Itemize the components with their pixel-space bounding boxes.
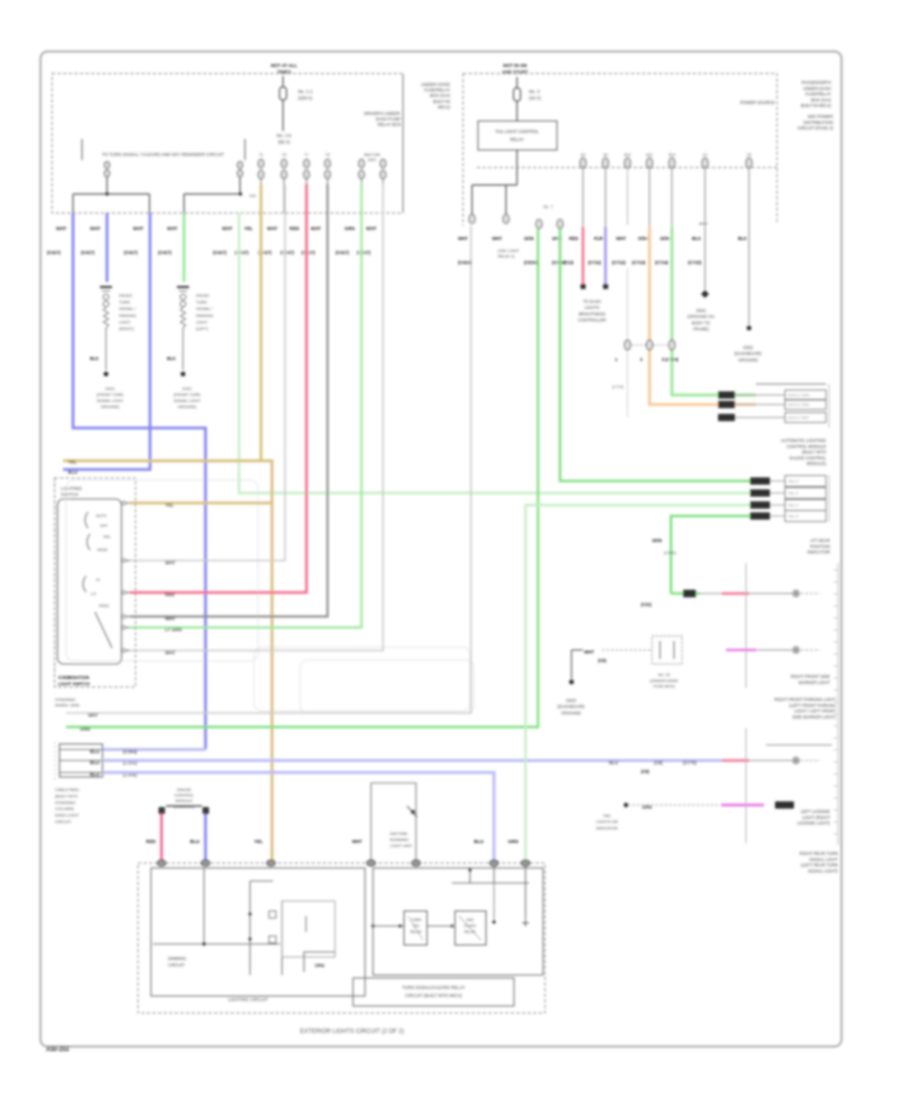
svg-text:TO DASH: TO DASH [583, 299, 601, 304]
svg-text:BLU: BLU [190, 839, 200, 844]
svg-text:TURN: TURN [119, 300, 130, 305]
connector relay pin B [503, 214, 509, 223]
power label HOT AT ALL TIMES [271, 63, 298, 75]
wire label relay B [492, 204, 553, 259]
svg-text:WHT: WHT [167, 226, 178, 231]
svg-text:SIGNAL /: SIGNAL / [196, 306, 213, 311]
svg-text:RED: RED [146, 839, 156, 844]
connector boundary line upper [745, 563, 747, 688]
svg-text:(C9): (C9) [641, 769, 650, 774]
svg-text:AUTO LT GRN: AUTO LT GRN [788, 393, 810, 397]
svg-text:RELAY BOX: RELAY BOX [378, 122, 402, 127]
right fuse box terminal row [580, 153, 752, 168]
wire label WHT relay A [458, 236, 472, 265]
svg-text:RELAY 2): RELAY 2) [498, 255, 515, 259]
taillight connector array [750, 476, 826, 522]
wire label row2 BLU [90, 760, 138, 765]
svg-text:GRN: GRN [660, 236, 670, 241]
wire GRN taillight row3 return [526, 505, 751, 861]
connector DRL into MICU [367, 860, 375, 866]
svg-text:GAUGE: GAUGE [177, 787, 192, 792]
fuse box caption TO TURN SIGNAL/HAZARD CIRCUIT [82, 139, 245, 160]
wire WHT switch row2 [130, 184, 285, 561]
svg-text:MICU): MICU) [438, 104, 451, 109]
wire BLU illumination bus row3 [103, 773, 495, 862]
svg-text:ORN: ORN [638, 236, 648, 241]
connector GRN pin B [557, 219, 563, 228]
wire WHT relay output long run [66, 226, 471, 713]
relay feed node [452, 866, 529, 927]
tail light relay [478, 121, 557, 185]
svg-text:RIGHT FRONT PARKING LIGHT: RIGHT FRONT PARKING LIGHT [774, 697, 836, 702]
svg-text:RED: RED [290, 226, 300, 231]
svg-text:AUTO: AUTO [96, 514, 107, 518]
driver's under-dash fuse box outline [463, 74, 777, 227]
tail indicator row [596, 801, 794, 830]
svg-text:TAIL: TAIL [103, 535, 111, 539]
svg-text:BRIGHTNESS: BRIGHTNESS [579, 311, 606, 316]
svg-text:(C714): (C714) [655, 260, 669, 265]
license light caption [797, 809, 830, 826]
svg-text:UNIT: UNIT [368, 158, 378, 162]
wire GRN small light feed long run [239, 213, 750, 493]
svg-text:LT GRN: LT GRN [165, 627, 182, 632]
svg-text:(C304): (C304) [123, 749, 138, 754]
svg-text:WHT: WHT [311, 226, 322, 231]
svg-text:(BUILT INTO: (BUILT INTO [802, 450, 827, 455]
svg-text:(100 A): (100 A) [298, 96, 313, 101]
svg-text:WHT: WHT [458, 236, 468, 241]
svg-text:(C710): (C710) [560, 260, 574, 265]
svg-text:LIGHT: LIGHT [196, 319, 208, 324]
front turn signal bulb LEFT [167, 287, 213, 370]
wire color labels row 1 [56, 226, 377, 231]
svg-text:COLUMN): COLUMN) [55, 806, 74, 811]
svg-text:G201: G201 [182, 386, 192, 391]
svg-text:AND START: AND START [502, 70, 528, 75]
svg-text:HI: HI [96, 578, 100, 582]
svg-text:LIGHT (RIGHT: LIGHT (RIGHT [802, 815, 830, 820]
svg-text:LICENSE LIGHT): LICENSE LIGHT) [797, 821, 830, 826]
svg-text:FLASH: FLASH [464, 924, 476, 928]
wire WHT switch row4 [130, 184, 328, 617]
node bus right headlight fuse [184, 192, 256, 213]
svg-text:WHT: WHT [165, 650, 176, 655]
svg-text:YEL: YEL [254, 839, 263, 844]
svg-text:(C770): (C770) [683, 760, 697, 765]
svg-text:INDICATOR: INDICATOR [596, 825, 618, 830]
svg-text:(GROUND VIA: (GROUND VIA [687, 314, 715, 319]
connector DRL b into MICU [412, 860, 420, 866]
svg-text:LIGHTS ON: LIGHTS ON [596, 819, 618, 824]
svg-text:(C417): (C417) [47, 250, 61, 255]
svg-text:LIGHT: LIGHT [119, 319, 131, 324]
module connector bracket [828, 384, 830, 428]
svg-text:(50 A): (50 A) [278, 140, 290, 145]
svg-text:MODULE): MODULE) [807, 461, 827, 466]
switch caption [58, 675, 90, 687]
svg-text:WHT: WHT [165, 616, 176, 621]
svg-text:LIGHT / LEFT FRONT: LIGHT / LEFT FRONT [795, 709, 837, 714]
svg-text:15A: 15A [249, 193, 256, 198]
connector GRN pin A [536, 219, 542, 228]
svg-text:G503: G503 [566, 698, 577, 703]
wire label row1 BLU [90, 749, 138, 754]
svg-text:TURN SIGNAL/HAZARD RELAY: TURN SIGNAL/HAZARD RELAY [402, 985, 465, 990]
svg-text:(C711): (C711) [588, 260, 602, 265]
wire GRN illumination long run [66, 229, 538, 727]
svg-text:GRN: GRN [508, 839, 519, 844]
svg-text:(C417): (C417) [213, 250, 227, 255]
svg-text:WHT: WHT [56, 226, 67, 231]
ground G202 [174, 372, 201, 409]
taillight connector bracket [828, 475, 830, 522]
svg-text:A50-253: A50-253 [46, 1047, 70, 1053]
svg-text:CIRCUIT: CIRCUIT [55, 819, 72, 824]
svg-text:WHT: WHT [616, 236, 626, 241]
svg-text:WHT: WHT [267, 226, 278, 231]
fuse No.1-1 100A [280, 76, 313, 131]
svg-text:FUSE/RELAY: FUSE/RELAY [424, 88, 450, 93]
svg-text:INDICATOR: INDICATOR [807, 550, 830, 555]
svg-text:LIGHTING: LIGHTING [61, 486, 82, 491]
svg-text:STEERING: STEERING [55, 697, 75, 702]
svg-text:POSITION: POSITION [810, 544, 830, 549]
svg-text:TAIL LT: TAIL LT [788, 503, 799, 507]
svg-text:TAIL LT: TAIL LT [788, 479, 799, 483]
svg-text:A4: A4 [603, 153, 607, 157]
fuse No.1-6 50A [277, 133, 292, 145]
svg-text:UNDER-HOOD: UNDER-HOOD [421, 82, 450, 87]
svg-text:No. 1-1: No. 1-1 [298, 89, 313, 94]
svg-text:UNDER-DASH: UNDER-DASH [803, 86, 831, 91]
wire GRN taillight row1 [560, 229, 750, 481]
lighting logic network [249, 881, 336, 975]
svg-text:WHEEL SIDE: WHEEL SIDE [55, 703, 80, 708]
svg-text:RUNNING: RUNNING [390, 837, 409, 842]
svg-text:G502: G502 [743, 345, 754, 350]
svg-text:No. 23: No. 23 [658, 672, 671, 677]
svg-text:FRAME): FRAME) [693, 327, 709, 332]
license light row labels [609, 745, 832, 765]
svg-text:(DASHBOARD: (DASHBOARD [734, 351, 761, 356]
wire WHT switch row6 [130, 184, 383, 651]
svg-text:BLU: BLU [68, 470, 78, 475]
svg-text:CONTROL: CONTROL [174, 793, 194, 798]
connector relay pin A [469, 214, 475, 223]
svg-text:(FRONT TURN: (FRONT TURN [174, 392, 201, 397]
svg-text:DASH LIGHT: DASH LIGHT [55, 813, 80, 818]
parking light row [641, 590, 820, 607]
svg-text:POWER SOURCE: POWER SOURCE [740, 100, 775, 105]
connector BLU into MICU [201, 860, 209, 866]
svg-text:WHT: WHT [492, 236, 502, 241]
under-hood fuse/relay box outline [52, 74, 403, 214]
wire GRN to right turn bulb [183, 213, 186, 282]
svg-text:PARKING: PARKING [196, 313, 213, 318]
svg-text:BLK: BLK [692, 236, 702, 241]
svg-text:BLU: BLU [90, 772, 100, 777]
wire BLU to left turn bulb [106, 213, 109, 282]
gauge module connector bar [159, 806, 210, 814]
fuse No.4 10A [514, 77, 542, 121]
svg-text:BLU: BLU [609, 760, 618, 765]
dimming circuit box [151, 868, 365, 996]
svg-text:TAIL: TAIL [603, 813, 612, 818]
wire to ground G501 [687, 168, 715, 332]
svg-text:RIGHT REAR TURN: RIGHT REAR TURN [800, 851, 838, 856]
svg-text:WHT: WHT [88, 713, 98, 718]
svg-text:RELAY: RELAY [410, 930, 422, 934]
svg-text:(C417): (C417) [336, 250, 350, 255]
faint harness outline C [66, 480, 258, 661]
svg-text:C1: C1 [703, 153, 708, 157]
wire BLU to lighting switch [63, 213, 150, 470]
svg-text:EXTERIOR LIGHTS CIRCUIT (2 OF: EXTERIOR LIGHTS CIRCUIT (2 OF 2) [300, 1029, 404, 1035]
svg-text:AUTO LT ORN: AUTO LT ORN [788, 403, 810, 407]
passenger under-dash fuse box caption [740, 80, 833, 131]
svg-text:5 (C725): 5 (C725) [662, 357, 679, 362]
wire labels GRN pins [524, 236, 566, 265]
svg-text:(C417): (C417) [281, 250, 295, 255]
svg-text:RIGHT FRONT SIDE: RIGHT FRONT SIDE [791, 674, 831, 679]
svg-text:RELAY: RELAY [464, 930, 476, 934]
gear position indicator caption [652, 538, 830, 555]
svg-text:YEL: YEL [244, 226, 253, 231]
fuse box terminal row [258, 153, 386, 213]
svg-text:(C6): (C6) [598, 658, 607, 663]
svg-text:(C417): (C417) [124, 250, 138, 255]
svg-text:FRONT: FRONT [196, 293, 210, 298]
svg-text:CIRCUIT (BUILT INTO MICU): CIRCUIT (BUILT INTO MICU) [405, 993, 462, 998]
svg-text:(C417): (C417) [235, 250, 249, 255]
svg-text:LIGHTING CIRCUIT: LIGHTING CIRCUIT [228, 997, 268, 1002]
svg-text:HEAD: HEAD [97, 548, 108, 552]
svg-text:(C417): (C417) [158, 250, 172, 255]
svg-text:No. 7: No. 7 [543, 204, 552, 209]
svg-text:(UNDER-DASH: (UNDER-DASH [650, 678, 678, 683]
switch positions AUTO OFF TAIL HEAD [85, 512, 111, 552]
wire WHT dome fuse column [612, 168, 628, 418]
wire ORN illumination [632, 168, 756, 405]
svg-text:RED: RED [165, 592, 175, 597]
svg-text:BLK: BLK [167, 356, 176, 361]
wire YEL tail feed [63, 184, 272, 861]
svg-text:TAIL LIGHT CONTROL: TAIL LIGHT CONTROL [495, 129, 539, 134]
svg-text:WHT: WHT [165, 560, 176, 565]
inline connector row C725 [615, 340, 679, 362]
svg-text:No. 4: No. 4 [529, 89, 540, 94]
wire to ground G502 [734, 168, 761, 362]
node bus left headlight fuse [73, 192, 150, 213]
svg-text:LIGHTS: LIGHTS [585, 305, 600, 310]
svg-text:TURN: TURN [196, 300, 207, 305]
svg-text:FUSE/RELAY: FUSE/RELAY [805, 92, 831, 97]
svg-text:SIGNAL LIGHT: SIGNAL LIGHT [97, 398, 124, 403]
svg-text:STEERING: STEERING [55, 800, 75, 805]
svg-text:OFF: OFF [100, 524, 108, 528]
svg-text:(10 A): (10 A) [529, 96, 541, 101]
power label HOT IN ON [502, 63, 528, 75]
relay output node [472, 185, 517, 214]
svg-text:TAIL LT: TAIL LT [788, 514, 799, 518]
svg-text:B14: B14 [669, 153, 675, 157]
svg-text:TIMES: TIMES [277, 70, 291, 75]
steering column caption [55, 697, 80, 708]
dash brightness controller caption [578, 299, 606, 323]
faint harness outline B [300, 660, 474, 713]
svg-text:PARKING: PARKING [119, 313, 136, 318]
svg-text:BLU: BLU [474, 839, 484, 844]
side marker caption right [774, 674, 836, 719]
svg-text:TURN: TURN [411, 918, 421, 922]
rear turn caption [800, 851, 839, 873]
connector RED into MICU [157, 860, 165, 866]
ground G201 [97, 372, 124, 409]
svg-text:(LEFT FRONT PARKING: (LEFT FRONT PARKING [789, 703, 836, 708]
svg-text:WHT: WHT [90, 226, 101, 231]
svg-text:T1: T1 [259, 153, 263, 157]
svg-text:(FRONT TURN: (FRONT TURN [97, 392, 124, 397]
svg-text:GROUND): GROUND) [178, 404, 197, 409]
svg-text:YEL: YEL [68, 460, 77, 465]
automatic lighting module caption [781, 438, 827, 466]
svg-text:(C31): (C31) [641, 602, 652, 607]
svg-text:DIMMING: DIMMING [168, 956, 186, 961]
svg-text:(C417): (C417) [302, 250, 316, 255]
svg-text:GRN: GRN [524, 236, 534, 241]
svg-text:HOT IN ON: HOT IN ON [503, 63, 527, 68]
svg-text:ABS FSR: ABS FSR [364, 153, 381, 157]
fuse No.16 right headlight [237, 162, 242, 194]
svg-text:MODULE: MODULE [175, 798, 192, 803]
svg-text:CPU: CPU [315, 963, 324, 968]
svg-text:T7: T7 [304, 153, 308, 157]
svg-text:GRN: GRN [652, 538, 662, 543]
svg-text:GAUGE CONTROL: GAUGE CONTROL [789, 455, 826, 460]
connector BLU3 into MICU [490, 860, 498, 866]
svg-text:LO: LO [91, 592, 96, 596]
svg-text:SIDE MARKER LIGHT): SIDE MARKER LIGHT) [792, 714, 836, 719]
svg-text:(RIGHT): (RIGHT) [119, 326, 134, 331]
svg-text:(C712): (C712) [612, 260, 626, 265]
svg-text:(LEFT): (LEFT) [196, 326, 209, 331]
svg-text:YEL: YEL [165, 503, 174, 508]
svg-text:WHT: WHT [352, 839, 362, 844]
svg-text:PASSENGER'S: PASSENGER'S [802, 80, 832, 85]
combination light switch box [55, 478, 136, 687]
svg-text:BUILT-IN: BUILT-IN [433, 99, 450, 104]
automatic lighting module connector [718, 384, 826, 423]
daytime running light unit [371, 783, 417, 861]
svg-text:SIG: SIG [413, 924, 419, 928]
svg-text:WHT: WHT [366, 226, 377, 231]
svg-text:No. 1-6: No. 1-6 [277, 133, 292, 138]
svg-text:RED: RED [569, 236, 578, 241]
wire GRN small lights [655, 168, 756, 395]
svg-text:SEE POWER: SEE POWER [808, 114, 833, 119]
turn signal relay box [372, 868, 544, 975]
svg-text:PUR: PUR [594, 236, 604, 241]
svg-text:C5: C5 [747, 153, 752, 157]
connector boundary line lower [745, 728, 747, 843]
svg-text:WHT: WHT [222, 226, 233, 231]
wire to dash brightness controller B [588, 168, 608, 289]
svg-text:GROUND): GROUND) [561, 710, 581, 715]
turn signal relay caption box [353, 978, 514, 1006]
svg-text:SIGNAL LIGHT: SIGNAL LIGHT [174, 398, 201, 403]
svg-text:(C719): (C719) [612, 385, 624, 389]
svg-text:DAYTIME: DAYTIME [390, 831, 408, 836]
svg-text:(TAIL LIGHT: (TAIL LIGHT [498, 249, 520, 253]
relay coil 2 [427, 911, 486, 945]
wire LT GRN switch row5 [130, 184, 362, 628]
svg-text:GRN: GRN [80, 727, 91, 732]
svg-text:(C417): (C417) [81, 250, 95, 255]
svg-text:B10: B10 [624, 153, 630, 157]
svg-text:(DASHBOARD: (DASHBOARD [557, 704, 584, 709]
svg-text:AUTOMATIC LIGHTING: AUTOMATIC LIGHTING [781, 438, 826, 443]
svg-text:(C416): (C416) [458, 260, 472, 265]
svg-text:BUILT-IN MICU): BUILT-IN MICU) [801, 103, 832, 108]
switch pins [122, 501, 131, 652]
wire BLU gauge feed [204, 814, 207, 861]
svg-text:AUTO LT WHT: AUTO LT WHT [788, 416, 809, 420]
svg-text:DISTRIBUTION: DISTRIBUTION [803, 120, 833, 125]
svg-text:(C562): (C562) [664, 550, 677, 555]
svg-text:BOX (HAS: BOX (HAS [430, 93, 450, 98]
svg-text:CIRCUIT (PAGE 2): CIRCUIT (PAGE 2) [797, 126, 833, 131]
svg-text:SWITCH: SWITCH [61, 492, 78, 497]
svg-text:GRN: GRN [345, 226, 356, 231]
svg-text:BLU: BLU [90, 760, 100, 765]
svg-text:COMBINATION: COMBINATION [58, 675, 89, 680]
svg-text:FRONT: FRONT [119, 293, 133, 298]
connector GRN into MICU [521, 860, 529, 866]
svg-text:CIRCUIT: CIRCUIT [168, 963, 185, 968]
label driver's under-dash fuse relay box [364, 82, 450, 127]
wire GRN taillight row4 [671, 516, 750, 594]
svg-text:CONTROLLER: CONTROLLER [578, 318, 606, 323]
svg-text:(C8): (C8) [654, 760, 663, 765]
svg-text:LEFT LICENSE: LEFT LICENSE [801, 809, 830, 814]
svg-text:SIGNAL LIGHT): SIGNAL LIGHT) [808, 868, 839, 873]
wire RED passing switch [130, 184, 307, 593]
svg-text:(C417): (C417) [357, 250, 371, 255]
svg-text:WHT: WHT [699, 222, 708, 226]
svg-text:DASH FUSE/: DASH FUSE/ [376, 117, 402, 122]
svg-text:(BUILT INTO: (BUILT INTO [55, 793, 78, 798]
license light row [641, 757, 820, 774]
svg-text:T8: T8 [325, 153, 329, 157]
svg-text:(C715): (C715) [688, 260, 702, 265]
svg-text:LIGHT SWITCH: LIGHT SWITCH [58, 682, 90, 687]
wire connector labels row 2 [47, 250, 371, 255]
wire RED gauge feed [160, 814, 163, 861]
svg-text:(C713): (C713) [632, 260, 646, 265]
ground G503 [557, 650, 584, 715]
fuse No.15 left headlight [104, 162, 109, 194]
gauge control module caption [174, 787, 195, 809]
svg-text:G501: G501 [696, 308, 707, 313]
svg-text:BLK: BLK [90, 356, 99, 361]
wire BLU headlight feed to cluster [73, 213, 206, 750]
svg-text:DRIVER'S UNDER-: DRIVER'S UNDER- [364, 111, 401, 116]
front turn signal bulb RIGHT [90, 287, 136, 370]
svg-text:A/T GEAR: A/T GEAR [811, 538, 830, 543]
svg-text:B12: B12 [646, 153, 652, 157]
svg-text:CONTROL MODULE: CONTROL MODULE [787, 444, 827, 449]
